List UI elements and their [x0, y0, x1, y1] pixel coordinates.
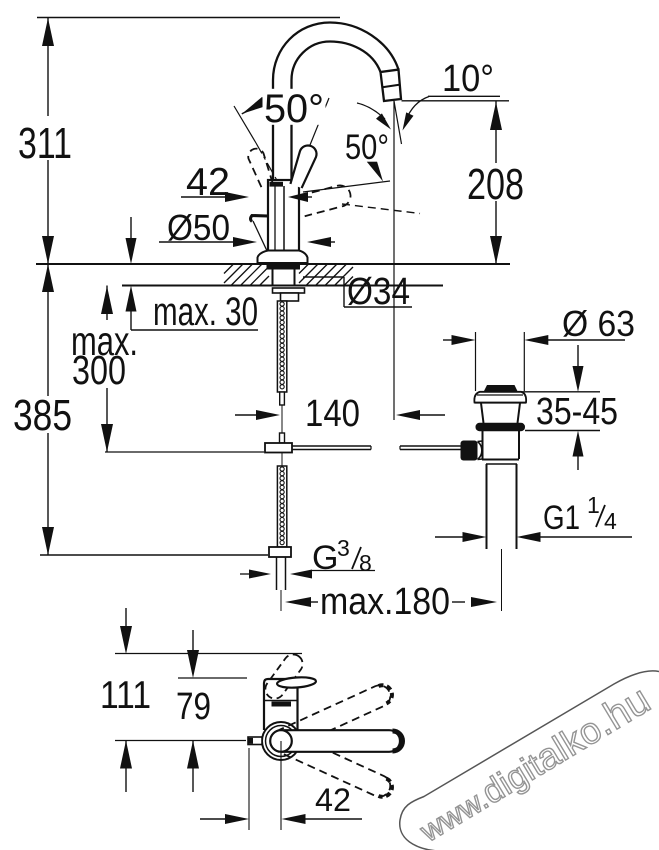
braided supply hose lower — [277, 466, 286, 547]
385 bottom extension line — [40, 554, 268, 556]
svg-text:50°: 50° — [345, 128, 389, 167]
svg-text:300: 300 — [72, 347, 126, 393]
dimension 35-45 top line — [517, 391, 600, 393]
faucet centerline bottom — [280, 590, 282, 611]
plan solid handle — [281, 730, 400, 752]
dimension 385 line — [47, 264, 49, 396]
svg-text:10°: 10° — [442, 58, 494, 100]
angle 50-1 label — [263, 89, 326, 125]
lever down dashed edge line — [342, 204, 420, 214]
aerator outline — [381, 70, 402, 101]
drain tailpipe — [486, 464, 488, 549]
dimension G114 line — [435, 536, 463, 538]
mounting nut — [281, 293, 299, 301]
faucet body interior line — [274, 186, 276, 257]
faucet body outline — [268, 180, 299, 259]
angle 50-2 arrow — [367, 157, 383, 181]
svg-text:140: 140 — [305, 393, 360, 435]
dimension 79 line — [192, 630, 194, 650]
max300 bottom extension line — [105, 451, 264, 453]
dimension G38 line — [240, 573, 250, 575]
svg-text:42: 42 — [186, 161, 230, 204]
dimension 35-45 bottom line — [525, 430, 600, 432]
svg-text:G: G — [312, 539, 338, 577]
watermark www.digitalko.hu — [400, 671, 659, 850]
O63 left extension line — [475, 332, 477, 391]
mounting washer — [273, 288, 305, 293]
svg-text:208: 208 — [467, 160, 524, 209]
O63 right extension line — [523, 332, 525, 391]
plan extension line spout tip — [115, 653, 302, 655]
dimension 311 line — [47, 18, 49, 117]
shank dark band — [267, 264, 301, 270]
svg-text:4: 4 — [604, 508, 617, 534]
svg-text:Ø34: Ø34 — [347, 271, 410, 313]
plan dashed handle upper — [277, 681, 396, 751]
pop-up rod pin — [280, 433, 285, 443]
drain centerline — [501, 549, 503, 611]
angle 50-2 label — [344, 130, 391, 162]
hose centerline upper — [281, 405, 283, 433]
countertop bottom line — [122, 285, 443, 287]
svg-text:8: 8 — [359, 550, 372, 576]
svg-text:Ø 63: Ø 63 — [562, 303, 635, 344]
svg-text:385: 385 — [13, 391, 72, 440]
dimension O50 line — [159, 241, 236, 243]
drain rod knob — [461, 441, 478, 461]
svg-text:311: 311 — [18, 119, 72, 168]
aerator horizontal extension lines — [428, 95, 500, 97]
drain body lower lines — [482, 459, 519, 461]
aerator band line — [382, 85, 400, 88]
spout tip 10deg tilted line — [394, 101, 402, 144]
svg-text:42: 42 — [315, 782, 351, 818]
plan lever oval — [277, 676, 317, 689]
svg-text:79: 79 — [176, 686, 211, 728]
faucet body top dark bar — [270, 182, 284, 187]
pop-up rod fitting — [265, 443, 292, 453]
horizontal pop-up rod right segment — [400, 445, 461, 447]
horizontal pop-up rod left segment — [292, 445, 371, 447]
plan extension line center — [115, 740, 246, 742]
spout tip vertical reference line — [393, 101, 395, 420]
base flange — [258, 251, 308, 264]
dimension max30 lines — [130, 217, 132, 240]
countertop top surface line — [36, 263, 510, 265]
pop-up lever hook — [251, 216, 269, 222]
dimension 140 line — [235, 414, 259, 416]
angle 50-1 left leg line — [234, 106, 256, 143]
countertop section hatching — [224, 264, 234, 274]
svg-text:50°: 50° — [264, 87, 324, 131]
dimension 42 top line — [181, 196, 228, 198]
svg-text:G1: G1 — [543, 499, 580, 537]
angle 50-1 right leg line — [310, 98, 329, 145]
plan extension line body front — [178, 677, 247, 679]
hose tip tube — [280, 392, 285, 405]
svg-text:111: 111 — [100, 674, 151, 717]
spout curved tube inner edge — [292, 42, 381, 182]
svg-text:1: 1 — [587, 492, 600, 518]
dimension 35-45 arrows — [577, 345, 579, 366]
dimension 111 line — [125, 608, 127, 628]
drain seal ring — [476, 423, 526, 431]
dimension max300 line — [106, 286, 108, 321]
drain cap — [484, 385, 517, 391]
plan dashed handle lower — [277, 731, 396, 801]
plan body outline — [264, 679, 298, 730]
braided supply hose upper — [277, 301, 286, 392]
dimension 208 line — [495, 102, 497, 164]
drain flange — [474, 392, 526, 403]
dimension O63 line — [443, 339, 452, 341]
spout curved tube outer edge — [273, 23, 399, 182]
plan pop-up rod pin — [248, 737, 262, 745]
drain body upper — [482, 431, 484, 459]
angle 50-1 arc — [242, 103, 322, 114]
angle 10 right arc and arrow — [406, 97, 430, 122]
angle 50-1 arrows — [242, 97, 267, 114]
top extension line (spout top) — [37, 17, 340, 19]
plan handle ball circle — [270, 730, 292, 752]
dashed lever handle up-left — [248, 149, 272, 187]
plan body outer ring — [262, 722, 300, 760]
hose centerline lower — [281, 453, 283, 467]
svg-text:max. 30: max. 30 — [153, 290, 258, 334]
angle 10 left arc and arrow — [357, 103, 385, 119]
plan body inner ring — [266, 726, 297, 757]
dimension max180 line — [310, 601, 318, 603]
svg-text:3: 3 — [337, 535, 350, 561]
plan pin extension line — [248, 748, 250, 830]
lever down-position axis line — [303, 181, 390, 192]
label O34 leader — [303, 276, 344, 278]
svg-text:Ø50: Ø50 — [167, 207, 230, 248]
plan body mid line — [264, 700, 298, 702]
dimension 42 line — [200, 818, 227, 820]
plan handle dark tip — [393, 731, 403, 751]
plan body dark bar — [272, 702, 292, 707]
hose end nut — [269, 547, 291, 557]
plan centerline — [280, 741, 282, 830]
dashed lever handle right — [299, 185, 350, 216]
faucet body center line — [283, 186, 285, 258]
drain neck — [481, 403, 484, 423]
G38 connector tube — [276, 557, 278, 590]
svg-text:35-45: 35-45 — [536, 391, 618, 433]
plan dashed lever — [262, 651, 307, 703]
svg-text:max.180: max.180 — [320, 581, 450, 623]
threaded shank lines — [272, 269, 274, 286]
solid lever handle — [290, 145, 316, 188]
